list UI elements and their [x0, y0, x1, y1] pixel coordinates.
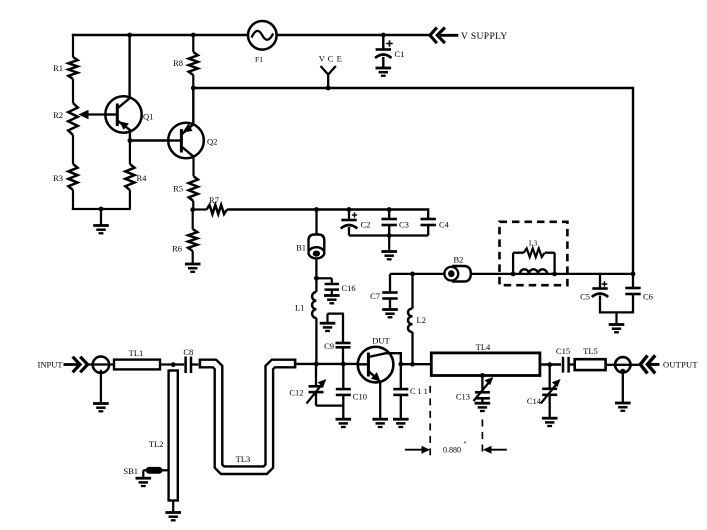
svg-text:B2: B2 — [454, 255, 464, 265]
svg-text:R1: R1 — [53, 63, 63, 73]
node R8 top junction — [191, 33, 196, 38]
resistor R7 — [207, 205, 227, 214]
svg-text:C7: C7 — [370, 291, 380, 301]
dashed dimension line right — [481, 420, 483, 456]
wire B1 to node — [315, 258, 317, 292]
capacitor C16 — [331, 278, 333, 283]
connector output jack — [615, 357, 630, 372]
svg-text:L3: L3 — [529, 239, 538, 248]
node DUT collector junction — [398, 362, 403, 367]
capacitor C2 — [348, 210, 350, 220]
transistor Q1 — [105, 96, 141, 132]
capacitor C14 — [549, 365, 551, 389]
transmission line TL3 — [199, 364, 297, 471]
wire R5 to node — [192, 201, 194, 211]
wire R2-R3 — [72, 135, 74, 164]
node C2 junction — [347, 207, 352, 212]
ground below C13 — [475, 402, 491, 405]
wire C2-C4 bottom — [349, 234, 428, 236]
resistor part of L3 — [524, 248, 545, 257]
ground below TL2 — [172, 501, 174, 513]
resistor R4 — [125, 164, 134, 190]
node top C1 junction — [381, 33, 386, 38]
svg-text:TL3: TL3 — [236, 454, 251, 464]
svg-text:L1: L1 — [295, 303, 304, 313]
svg-text:V C E: V C E — [319, 54, 343, 64]
probe VCE — [321, 66, 336, 75]
wiper arrow into R2 — [82, 113, 106, 115]
node VCE junction — [326, 86, 331, 91]
ground below C10 — [336, 418, 352, 421]
wire TL3 to RF node — [296, 363, 358, 365]
inductor coil of L3 — [520, 269, 547, 274]
wire C5-C6 bottom — [600, 311, 633, 313]
transistor DUT — [358, 347, 394, 383]
ferrite bead B2 — [452, 266, 471, 282]
svg-text:C2: C2 — [361, 220, 371, 230]
resistor R8 — [192, 35, 194, 52]
wire to C16 — [316, 277, 331, 279]
resistor R1 — [68, 57, 77, 79]
svg-text:B1: B1 — [296, 243, 306, 253]
svg-text:C6: C6 — [643, 292, 653, 302]
wire TL1 to C8 — [160, 363, 184, 365]
ground below C7 — [382, 308, 398, 311]
ground below C14 — [542, 417, 558, 420]
resistor R6 — [192, 210, 194, 229]
capacitor C10 — [342, 364, 344, 389]
wire R1-R2 — [72, 79, 74, 103]
node C3 junction — [387, 207, 392, 212]
capacitor C15 — [562, 357, 565, 373]
capacitor C13 — [481, 376, 483, 392]
svg-text:OUTPUT: OUTPUT — [663, 360, 698, 370]
svg-text:F1: F1 — [255, 55, 263, 64]
node B1 top junction — [314, 207, 319, 212]
wire bias feed — [227, 208, 428, 210]
node L1 RF junction — [314, 362, 319, 367]
svg-text:R8: R8 — [173, 58, 183, 68]
ground below C16 — [324, 294, 340, 297]
wire Q2 emitter down — [192, 156, 194, 176]
capacitor C4 — [427, 208, 429, 218]
wire Q1 emitter down — [129, 130, 131, 141]
wire mid rail — [390, 273, 445, 275]
svg-text:″: ″ — [464, 440, 467, 449]
svg-text:R5: R5 — [173, 184, 183, 194]
svg-text:TL2: TL2 — [149, 439, 164, 449]
transmission line TL5 — [575, 359, 606, 370]
wire top rail right segment — [277, 34, 430, 36]
node R5 R6 R7 junction — [190, 207, 195, 212]
wire Q1 to Q2 base — [130, 139, 169, 141]
capacitor C5 — [599, 273, 601, 288]
wire L1 to RF line — [315, 318, 317, 366]
svg-text:TL5: TL5 — [583, 346, 598, 356]
ground below C5 C6 — [615, 312, 617, 324]
ground below SB1 — [136, 477, 152, 480]
svg-text:R6: R6 — [172, 244, 182, 254]
svg-text:R3: R3 — [53, 173, 63, 183]
wire C12 bottom link — [316, 404, 343, 406]
resistor R3 — [68, 164, 77, 190]
svg-text:C12: C12 — [289, 388, 303, 398]
wire B1 top — [315, 210, 317, 235]
connector OUTPUT arrow — [647, 355, 655, 373]
connector INPUT chevron — [80, 357, 87, 373]
svg-text:C16: C16 — [342, 283, 356, 293]
stub SB1 — [146, 467, 163, 474]
svg-text:C4: C4 — [439, 220, 450, 230]
svg-text:TL1: TL1 — [129, 348, 144, 358]
transmission line TL4 — [431, 353, 540, 376]
svg-text:C10: C10 — [353, 392, 367, 402]
node Q2 collector junction — [191, 86, 196, 91]
wire R7 node stub — [193, 208, 207, 210]
node C3 bottom junction — [387, 233, 392, 238]
capacitor C1 — [382, 35, 384, 49]
wire left rail top — [72, 34, 73, 36]
wire TL4 out — [540, 363, 561, 365]
ground below DUT emitter — [372, 418, 388, 421]
wire node to R4 — [129, 141, 131, 165]
transmission line TL2 — [169, 371, 178, 501]
ground above C9 — [320, 322, 336, 325]
svg-text:V SUPPLY: V SUPPLY — [461, 32, 508, 42]
svg-text:DUT: DUT — [372, 336, 390, 346]
connector V SUPPLY arrow — [437, 28, 445, 44]
ground left bias — [100, 209, 102, 225]
dimension arrow right — [488, 449, 507, 451]
node right rail junction — [631, 272, 636, 277]
wire input to TL1 — [88, 363, 114, 365]
transmission line TL1 — [114, 360, 160, 370]
svg-text:R2: R2 — [53, 110, 63, 120]
node L3 left junction — [511, 272, 516, 277]
connector INPUT arrow — [64, 363, 78, 366]
svg-text:C3: C3 — [399, 220, 409, 230]
svg-text:C13: C13 — [456, 392, 470, 402]
capacitor C3 — [388, 210, 390, 219]
ground below C3 — [388, 236, 390, 252]
wire VCE rail — [193, 87, 633, 89]
node Q1 collector junction — [127, 33, 132, 38]
svg-text:C15: C15 — [556, 346, 570, 356]
ferrite bead B1 — [309, 235, 325, 252]
svg-text:C9: C9 — [324, 341, 334, 351]
dashed dimension line left — [429, 386, 431, 455]
wire Q2 collector up — [192, 88, 194, 124]
svg-text:0.880: 0.880 — [443, 446, 461, 455]
svg-text:R4: R4 — [137, 173, 148, 183]
node L2 junction top — [410, 272, 415, 277]
wire top rail left segment — [73, 34, 248, 36]
ground below output jack — [615, 402, 631, 405]
node TL2 junction — [171, 362, 176, 367]
svg-text:C14: C14 — [527, 396, 542, 406]
node bias ground junction — [99, 207, 104, 212]
svg-text:C 1 1: C 1 1 — [410, 387, 428, 396]
connector input jack — [93, 357, 109, 373]
capacitor C8 — [184, 357, 187, 374]
ground below C1 — [376, 67, 392, 70]
capacitor C12 — [315, 364, 317, 386]
svg-text:C8: C8 — [183, 347, 193, 357]
node C10 junction — [341, 362, 346, 367]
wire R4 to bottom — [129, 190, 131, 209]
wire jack to OUTPUT — [631, 364, 640, 366]
node L3 right junction — [552, 272, 557, 277]
ground below input jack — [93, 402, 109, 405]
inductor L2 — [411, 274, 413, 309]
svg-text:INPUT: INPUT — [38, 360, 64, 370]
svg-text:R7: R7 — [209, 195, 219, 205]
node Q1-Q2 junction — [127, 138, 132, 143]
svg-text:SB1: SB1 — [123, 466, 138, 476]
transistor Q2 — [168, 123, 204, 159]
node L2 RF junction — [410, 362, 415, 367]
svg-text:TL4: TL4 — [476, 342, 491, 352]
capacitor C11 — [400, 364, 402, 388]
oscillator F1 — [248, 21, 277, 50]
inductor L1 — [312, 292, 316, 318]
svg-text:C5: C5 — [580, 292, 590, 302]
dimension arrow left — [405, 449, 425, 451]
resistor R5 — [189, 176, 198, 201]
wire L3 loop risers — [512, 253, 514, 274]
node C16 junction — [314, 276, 319, 281]
svg-text:L2: L2 — [417, 315, 426, 325]
wire Q1 collector up — [128, 35, 130, 98]
capacitor C9 with ground — [342, 314, 344, 343]
wire TL5 to jack — [606, 364, 615, 366]
dashed box around L3 — [500, 222, 568, 285]
node C13 junction — [480, 373, 485, 378]
wire R3 to bottom — [72, 190, 74, 209]
capacitor C7 — [389, 274, 391, 292]
wire collector node — [401, 363, 432, 365]
resistor R2 (pot) — [68, 103, 78, 135]
ground below R6 — [185, 263, 201, 266]
node C14 junction — [547, 362, 552, 367]
svg-text:Q2: Q2 — [207, 137, 217, 147]
capacitor C6 — [632, 274, 634, 288]
ground below C11 — [393, 418, 409, 421]
connector OUTPUT chevron — [640, 355, 647, 373]
svg-text:C1: C1 — [395, 49, 405, 59]
svg-text:Q1: Q1 — [143, 112, 153, 122]
wire right drop — [632, 87, 634, 274]
connector V SUPPLY chevron — [430, 28, 437, 44]
